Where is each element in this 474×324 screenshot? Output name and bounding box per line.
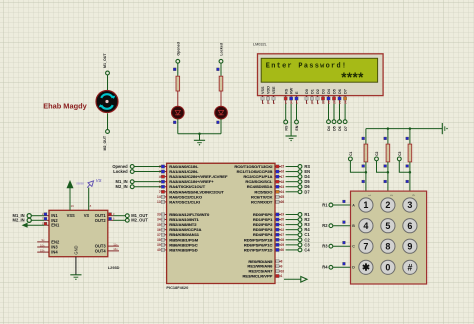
keypad button 6 [403,219,417,233]
arrow terminal (MCLR) [301,277,307,283]
terminal Locked (PIC left) [113,169,161,174]
wire top bus [366,128,442,130]
microcontroller U1 PIC18F4620 body [167,163,275,283]
svg-text:VDD: VDD [267,86,271,94]
keypad button 8 [381,239,395,253]
logic state marker [173,68,176,71]
svg-text:✱: ✱ [362,263,370,273]
svg-text:EN1: EN1 [51,223,60,228]
terminal M2_IN (PIC left) [116,184,161,189]
svg-text:2: 2 [390,194,394,196]
PIC pin 21 RD2 (right) [253,222,285,227]
svg-text:D1: D1 [311,89,315,94]
PIC pin 25 RC6 (right) [251,194,284,199]
PIC pin 14 RA6 (left) [157,194,202,199]
terminal M2_OUT (motor bottom) [106,130,110,134]
L293D pin 6 OUT [108,217,115,221]
svg-text:27: 27 [281,233,285,237]
resistor lead [177,91,179,106]
svg-text:#: # [407,263,412,273]
svg-text:D7: D7 [304,189,310,194]
svg-text:15x: 15x [40,248,45,252]
PIC pin 15 RC0 (right) [234,164,284,169]
PIC pin 23 RC4 (right) [247,184,285,189]
svg-text:Opened: Opened [176,42,180,55]
terminal M2_IN [27,218,31,222]
svg-text:RW: RW [290,87,294,94]
junction [387,171,390,174]
svg-text:RB7/KBI3/PGD: RB7/KBI3/PGD [169,247,197,252]
keypad button 1 [359,198,373,212]
PIC pin 26 RC7 (right) [251,199,284,204]
svg-text:D7: D7 [344,89,348,94]
svg-text:9: 9 [281,264,283,268]
terminal D7 (PIC right) [286,189,311,194]
resistor R5 (C1 pullup) [364,144,368,162]
LCD pin 2 VDD [266,86,270,104]
keypad button 2 [381,198,395,212]
terminal C2 (keypad col) [375,151,388,172]
terminal C1 (PIC right) [286,232,311,237]
LCD pin 1 VSS [261,86,265,104]
LED D1 (Opened) [172,106,185,119]
LCD pin 3 VEE [272,86,276,104]
ground (L293D) [70,274,81,276]
svg-text:M2_IN: M2_IN [13,218,25,223]
terminal D5 (PIC right) [286,179,311,184]
LCD pin 7 D0 [305,89,309,104]
terminal M1_IN (PIC left) [116,179,161,184]
PIC pin 8 RE0 (right) [248,259,282,264]
svg-text:Locked: Locked [113,169,128,174]
L293D pin 9 (nc) [37,238,49,242]
terminal RS [284,120,288,124]
svg-text:10: 10 [321,101,325,105]
svg-text:Enter Password!: Enter Password! [266,63,348,71]
wire D6 [339,104,341,120]
PIC pin 7 RA5 (left) [159,189,225,194]
svg-text:3: 3 [412,194,416,196]
logic state marker [217,68,220,71]
svg-text:C4: C4 [304,247,310,252]
terminal EN (PIC right) [286,169,311,174]
svg-text:19: 19 [281,213,285,217]
PIC pin 13 RA7 (left) [157,199,200,204]
svg-text:13: 13 [157,200,161,204]
terminal Locked [219,59,223,63]
terminal D5 [332,120,336,124]
wire RW to ground [290,104,292,136]
L293D pin 11 OUT (nc) [108,242,119,246]
LCD pin 5 RW [289,87,293,104]
wire [27,224,45,226]
PIC pin 33 RB0 (left) [157,212,210,217]
L293D pin 2 [42,212,49,216]
L293D pin 10 (nc) [37,243,49,247]
svg-text:34: 34 [157,218,161,222]
svg-text:38: 38 [157,238,161,242]
LCD pin 6 E [295,91,299,104]
PIC pin 19 RD0 (right) [253,212,285,217]
junction [409,127,412,130]
PIC pin 3 RA1 (left) [159,169,199,174]
PIC pin 29 RD6 (right) [244,242,285,247]
svg-text:RA7/OSC1/CLKI: RA7/OSC1/CLKI [169,199,200,204]
ground (LED common) [194,139,205,141]
resistor R-led1 [176,76,180,91]
svg-text:VEE: VEE [272,86,276,94]
logic state marker [173,121,176,124]
wire [31,219,44,221]
terminal C3 (PIC right) [286,242,311,247]
svg-text:33: 33 [157,213,161,217]
terminal D6 [338,120,342,124]
svg-text:7: 7 [159,190,161,194]
svg-text:A: A [352,203,355,207]
svg-text:14: 14 [157,195,161,199]
PIC pin 34 RB1 (left) [157,217,199,222]
wire D4 [328,104,330,120]
svg-text:16: 16 [71,204,75,208]
wire [177,63,179,76]
PIC pin 20 RD1 (right) [253,217,285,222]
keypad button 4 [359,219,373,233]
power VSS (L293D pin 16) [67,180,85,210]
svg-text:VS: VS [84,213,90,218]
svg-text:D3: D3 [322,89,326,94]
keypad button 5 [381,219,395,233]
svg-text:26: 26 [281,200,285,204]
terminal Opened [176,59,180,63]
svg-text:16: 16 [281,170,285,174]
terminal D4 [327,120,331,124]
wire E [296,104,298,120]
svg-text:OUT4: OUT4 [95,248,107,253]
terminal M1_OUT (L293D) [125,214,129,218]
svg-text:R1: R1 [322,202,328,207]
svg-text:21: 21 [281,223,285,227]
wire [365,162,367,191]
PIC pin 40 RB7 (left) [157,247,198,252]
svg-text:40: 40 [157,248,161,252]
keypad button # [403,260,417,274]
terminal M1_IN [27,214,31,218]
svg-text:D4: D4 [327,126,331,131]
svg-text:36: 36 [157,228,161,232]
keypad button 0 [381,260,395,274]
resistor R-led2 [219,76,223,91]
svg-text:Ehab Magdy: Ehab Magdy [43,102,87,111]
svg-text:M1_OUT: M1_OUT [103,53,107,68]
LCD pin 4 RS [284,88,288,104]
svg-text:6: 6 [407,221,412,231]
svg-text:1: 1 [281,274,283,278]
svg-text:25: 25 [281,195,285,199]
PIC pin 6 RA4 (left) [159,184,206,189]
wire RE3/MCLR [284,278,301,280]
wire motor top [107,75,109,90]
svg-text:4: 4 [363,221,368,231]
svg-text:EN: EN [295,125,299,130]
svg-text:C1: C1 [349,151,353,155]
PIC pin 27 RD4 (right) [253,232,285,237]
svg-text:14x: 14x [113,247,118,251]
keypad button ✱ [359,260,373,274]
terminal C4 (PIC right) [286,247,311,252]
svg-text:L293D: L293D [108,265,120,270]
PIC pin 4 RA2 (left) [159,174,228,179]
arrow terminal EN1 [22,223,28,228]
svg-text:5: 5 [385,221,390,231]
wire column C3 [409,129,411,145]
svg-text:4: 4 [159,175,161,179]
logic state marker [217,121,220,124]
wire [113,219,125,221]
resistor R7 (C3 pullup) [408,144,412,162]
LCD pin 13 D6 [338,89,342,104]
terminal D7 [343,120,347,124]
resistor lead [220,91,222,106]
svg-text:D0: D0 [305,89,309,94]
wire [199,134,201,141]
terminal D6 (PIC right) [286,184,311,189]
svg-text:30: 30 [281,248,285,252]
wire D5 [333,104,335,120]
ground (sideways, right) [442,123,447,134]
svg-text:GND: GND [73,245,78,254]
svg-text:RS: RS [284,125,288,131]
LCD pin 10 D3 [321,89,325,104]
svg-text:10: 10 [281,269,285,273]
keypad button 3 [403,198,417,212]
svg-text:0: 0 [385,263,390,273]
svg-text:24: 24 [281,190,285,194]
wire [220,119,222,134]
PIC pin 2 RA0 (left) [159,164,199,169]
terminal EN [295,120,299,124]
terminal C2 (PIC right) [286,237,311,242]
L293D pin 7 [42,217,49,221]
svg-text:LM032L: LM032L [253,43,267,47]
svg-text:RS: RS [284,88,288,94]
svg-text:Locked: Locked [220,43,224,56]
svg-text:9: 9 [407,241,412,251]
svg-text:R4: R4 [322,265,328,270]
PIC pin 38 RB5 (left) [157,237,199,242]
wire motor bottom [107,113,109,129]
svg-text:PIC18F4620: PIC18F4620 [166,285,188,290]
LCD pin 9 D2 [316,89,320,104]
svg-text:11x: 11x [113,242,118,246]
svg-text:RD7/PSP7/P1D: RD7/PSP7/P1D [244,247,273,252]
PIC pin 37 RB4 (left) [157,232,200,237]
terminal D4 (PIC right) [286,174,311,179]
terminal RS (PIC right) [286,164,311,169]
svg-text:****: **** [341,70,364,85]
L293D pin 15 (nc) [37,248,49,252]
terminal Opened (PIC left) [112,164,161,169]
terminal R1 (keypad row) [322,200,350,207]
svg-text:VS: VS [96,178,102,183]
junction [198,132,201,135]
svg-text:10x: 10x [40,243,45,247]
PIC pin 22 RD3 (right) [253,227,285,232]
svg-text:29: 29 [281,243,285,247]
terminal R3 (keypad row) [322,241,350,248]
terminal M2_OUT (L293D) [125,218,129,222]
wire column C1 [365,129,367,145]
svg-text:D6: D6 [338,126,342,131]
svg-text:8: 8 [385,241,390,251]
keypad button 7 [359,239,373,253]
svg-text:IN4: IN4 [51,250,58,255]
terminal R1 (PIC right) [286,212,311,217]
svg-text:R2: R2 [322,223,328,228]
svg-text:8: 8 [281,259,283,263]
PIC pin 18 RC3 (right) [245,179,284,184]
svg-text:B: B [352,224,355,228]
svg-text:11: 11 [327,101,331,104]
junction [409,171,412,174]
keypad body [351,191,427,284]
svg-text:12: 12 [332,101,336,105]
svg-text:D7: D7 [344,126,348,131]
svg-text:RE3/MCLR/VPP: RE3/MCLR/VPP [242,273,272,278]
svg-text:13: 13 [338,101,342,105]
svg-text:20: 20 [281,218,285,222]
wire RS [285,104,287,120]
motor driver U2 L293D body [49,210,108,256]
PIC pin 35 RB2 (left) [157,222,197,227]
L293D pin 1 [42,222,49,226]
svg-text:D: D [352,266,355,270]
svg-text:C2: C2 [375,151,379,155]
svg-text:D5: D5 [333,89,337,94]
resistor R6 (C2 pullup) [386,144,390,162]
PIC pin 39 RB6 (left) [157,242,198,247]
svg-text:88888: 88888 [76,182,84,186]
terminal R2 (PIC right) [286,217,311,222]
LCD LM032L body [258,54,384,96]
svg-text:35: 35 [157,223,161,227]
motor M1 [96,91,118,113]
terminal R3 (PIC right) [286,222,311,227]
svg-text:C: C [352,245,355,249]
terminal C1 (keypad col) [349,151,366,172]
wire [387,162,389,191]
wire led common [178,133,221,135]
PIC pin 28 RD5 (right) [244,237,285,242]
svg-text:39: 39 [157,243,161,247]
svg-text:7: 7 [363,241,368,251]
svg-text:D5: D5 [333,126,337,131]
svg-text:M2_OUT: M2_OUT [131,218,148,223]
keypad button 9 [403,239,417,253]
LCD screen [261,58,377,82]
svg-text:C3: C3 [398,151,402,155]
ground (LCD RW) [286,135,297,137]
svg-text:VSS: VSS [261,86,265,94]
wire [113,215,125,217]
L293D GND pin wire [75,257,77,275]
svg-text:M2_IN: M2_IN [116,184,128,189]
PIC pin 24 RC5 (right) [254,189,284,194]
wire [177,119,179,134]
power VS (L293D pin 8) [87,178,101,210]
terminal C3 (keypad col) [397,151,410,172]
PIC pin 9 RE1 (right) [247,264,282,269]
svg-text:18: 18 [281,180,285,184]
PIC pin 30 RD7 (right) [244,247,285,252]
svg-text:D6: D6 [338,89,342,94]
svg-text:17: 17 [281,175,285,179]
L293D pin 3 OUT [108,212,115,216]
svg-text:M2_OUT: M2_OUT [103,135,107,150]
svg-text:14: 14 [343,101,347,105]
LCD pin 8 D1 [310,89,314,104]
terminal R4 (PIC right) [286,227,311,232]
PIC pin 16 RC1 (right) [237,169,285,174]
svg-text:1: 1 [363,200,368,210]
svg-text:R3: R3 [322,244,328,249]
svg-text:OUT2: OUT2 [95,218,107,223]
LCD pin 12 D5 [332,89,336,104]
LCD pin 14 D7 [343,89,347,104]
svg-text:RC7/RX/DT: RC7/RX/DT [251,199,273,204]
wire [31,215,44,217]
svg-text:VSS: VSS [67,213,75,218]
svg-text:3: 3 [407,200,412,210]
PIC pin 17 RC2 (right) [243,174,284,179]
svg-text:E: E [295,91,299,94]
svg-text:15: 15 [281,165,285,169]
PIC pin 36 RB3 (left) [157,227,201,232]
wire column C2 [387,129,389,145]
svg-text:1: 1 [368,194,372,196]
junction [365,171,368,174]
svg-text:22: 22 [281,228,285,232]
L293D pin 14 OUT (nc) [108,247,119,251]
wire D7 [344,104,346,120]
PIC pin 10 RE2 (right) [249,269,285,274]
svg-text:37: 37 [157,233,161,237]
terminal R2 (keypad row) [322,221,350,228]
svg-text:2: 2 [385,200,390,210]
svg-text:D2: D2 [316,89,320,94]
junction [387,127,390,130]
wire [220,63,222,76]
LCD pin 11 D4 [327,88,331,104]
terminal R4 (keypad row) [322,262,350,269]
PIC pin 5 RA3 (left) [159,179,214,184]
svg-text:28: 28 [281,238,285,242]
terminal M1_OUT (motor top) [106,71,110,75]
wire [409,162,411,191]
svg-text:23: 23 [281,185,285,189]
PIC pin 1 RE3 (right) [242,273,282,278]
LED D2 (Locked) [215,106,228,119]
